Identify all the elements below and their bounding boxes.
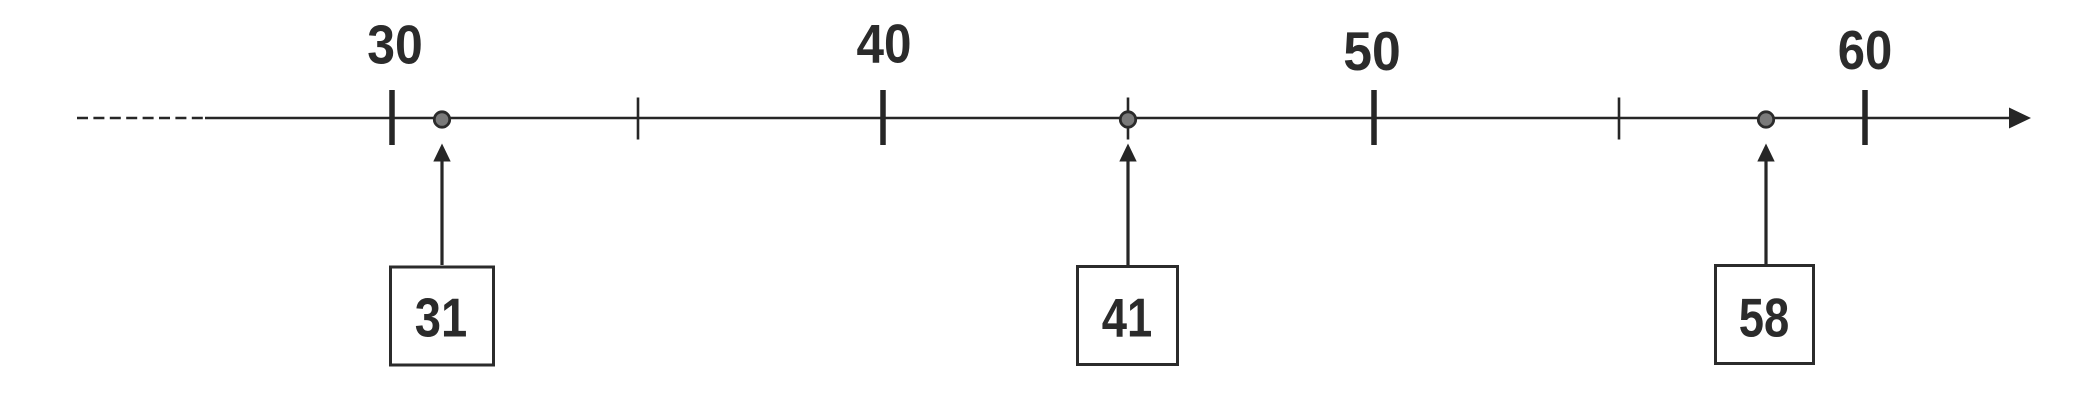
box 58 [1716, 266, 1814, 364]
major tick 50 [1371, 90, 1377, 145]
arrow shaft from box 58 [1764, 159, 1767, 265]
minor tick 35 [637, 98, 640, 140]
major tick 60 [1862, 90, 1868, 145]
arrow shaft from box 41 [1126, 159, 1129, 265]
dot at 31 [434, 112, 449, 127]
arrowhead up for 41 [1119, 144, 1136, 162]
svg-text:31: 31 [415, 287, 468, 349]
arrow shaft from box 31 [440, 159, 443, 265]
svg-text:30: 30 [367, 14, 423, 76]
major tick 40 [880, 90, 886, 145]
svg-text:41: 41 [1102, 287, 1153, 349]
arrowhead up for 31 [433, 144, 450, 162]
wire dashed left segment of number line [77, 117, 205, 120]
arrowhead up for 58 [1757, 144, 1774, 162]
minor tick 55 [1618, 98, 1621, 140]
right arrowhead of number line [2009, 108, 2031, 129]
dot at 41 [1120, 112, 1135, 127]
box 41 [1078, 267, 1178, 365]
svg-text:60: 60 [1838, 19, 1893, 81]
box 31 [391, 267, 494, 365]
svg-text:58: 58 [1739, 287, 1790, 349]
major tick 30 [389, 90, 395, 145]
svg-text:50: 50 [1343, 20, 1401, 82]
dot at 58 [1758, 112, 1773, 127]
svg-text:40: 40 [857, 13, 912, 75]
minor tick 45 [1127, 98, 1130, 140]
wire main number line [205, 117, 2013, 120]
